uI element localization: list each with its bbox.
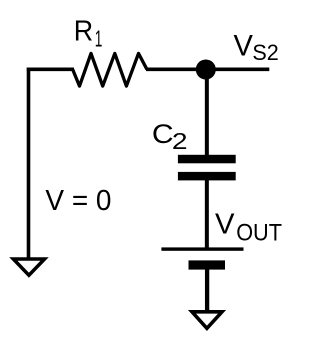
svg-text:2: 2 <box>172 128 188 154</box>
ground (right, open triangle) <box>192 312 222 329</box>
capacitor C2 bottom plate <box>178 172 236 181</box>
node junction dot <box>196 60 216 80</box>
battery short thick plate <box>189 260 226 269</box>
capacitor C2 top plate <box>178 155 236 164</box>
svg-text:V = 0: V = 0 <box>45 185 111 217</box>
svg-text:S2: S2 <box>252 40 278 65</box>
wire: resistor to right end (through node) <box>146 68 269 72</box>
svg-text:1: 1 <box>95 26 103 52</box>
wire: left vertical <box>27 68 31 260</box>
wire: top-left horizontal segment <box>27 68 74 72</box>
svg-text:C: C <box>152 118 174 149</box>
svg-text:R: R <box>74 16 93 48</box>
wire: capacitor to battery <box>205 180 209 250</box>
battery long thin plate <box>161 247 243 250</box>
resistor R1 <box>73 53 147 86</box>
wire: node to capacitor <box>205 70 209 157</box>
ground (left, open triangle) <box>13 259 44 275</box>
svg-text:OUT: OUT <box>236 219 282 246</box>
svg-text:V: V <box>234 29 254 62</box>
svg-text:V: V <box>215 208 235 240</box>
wire: battery to ground <box>205 269 209 312</box>
